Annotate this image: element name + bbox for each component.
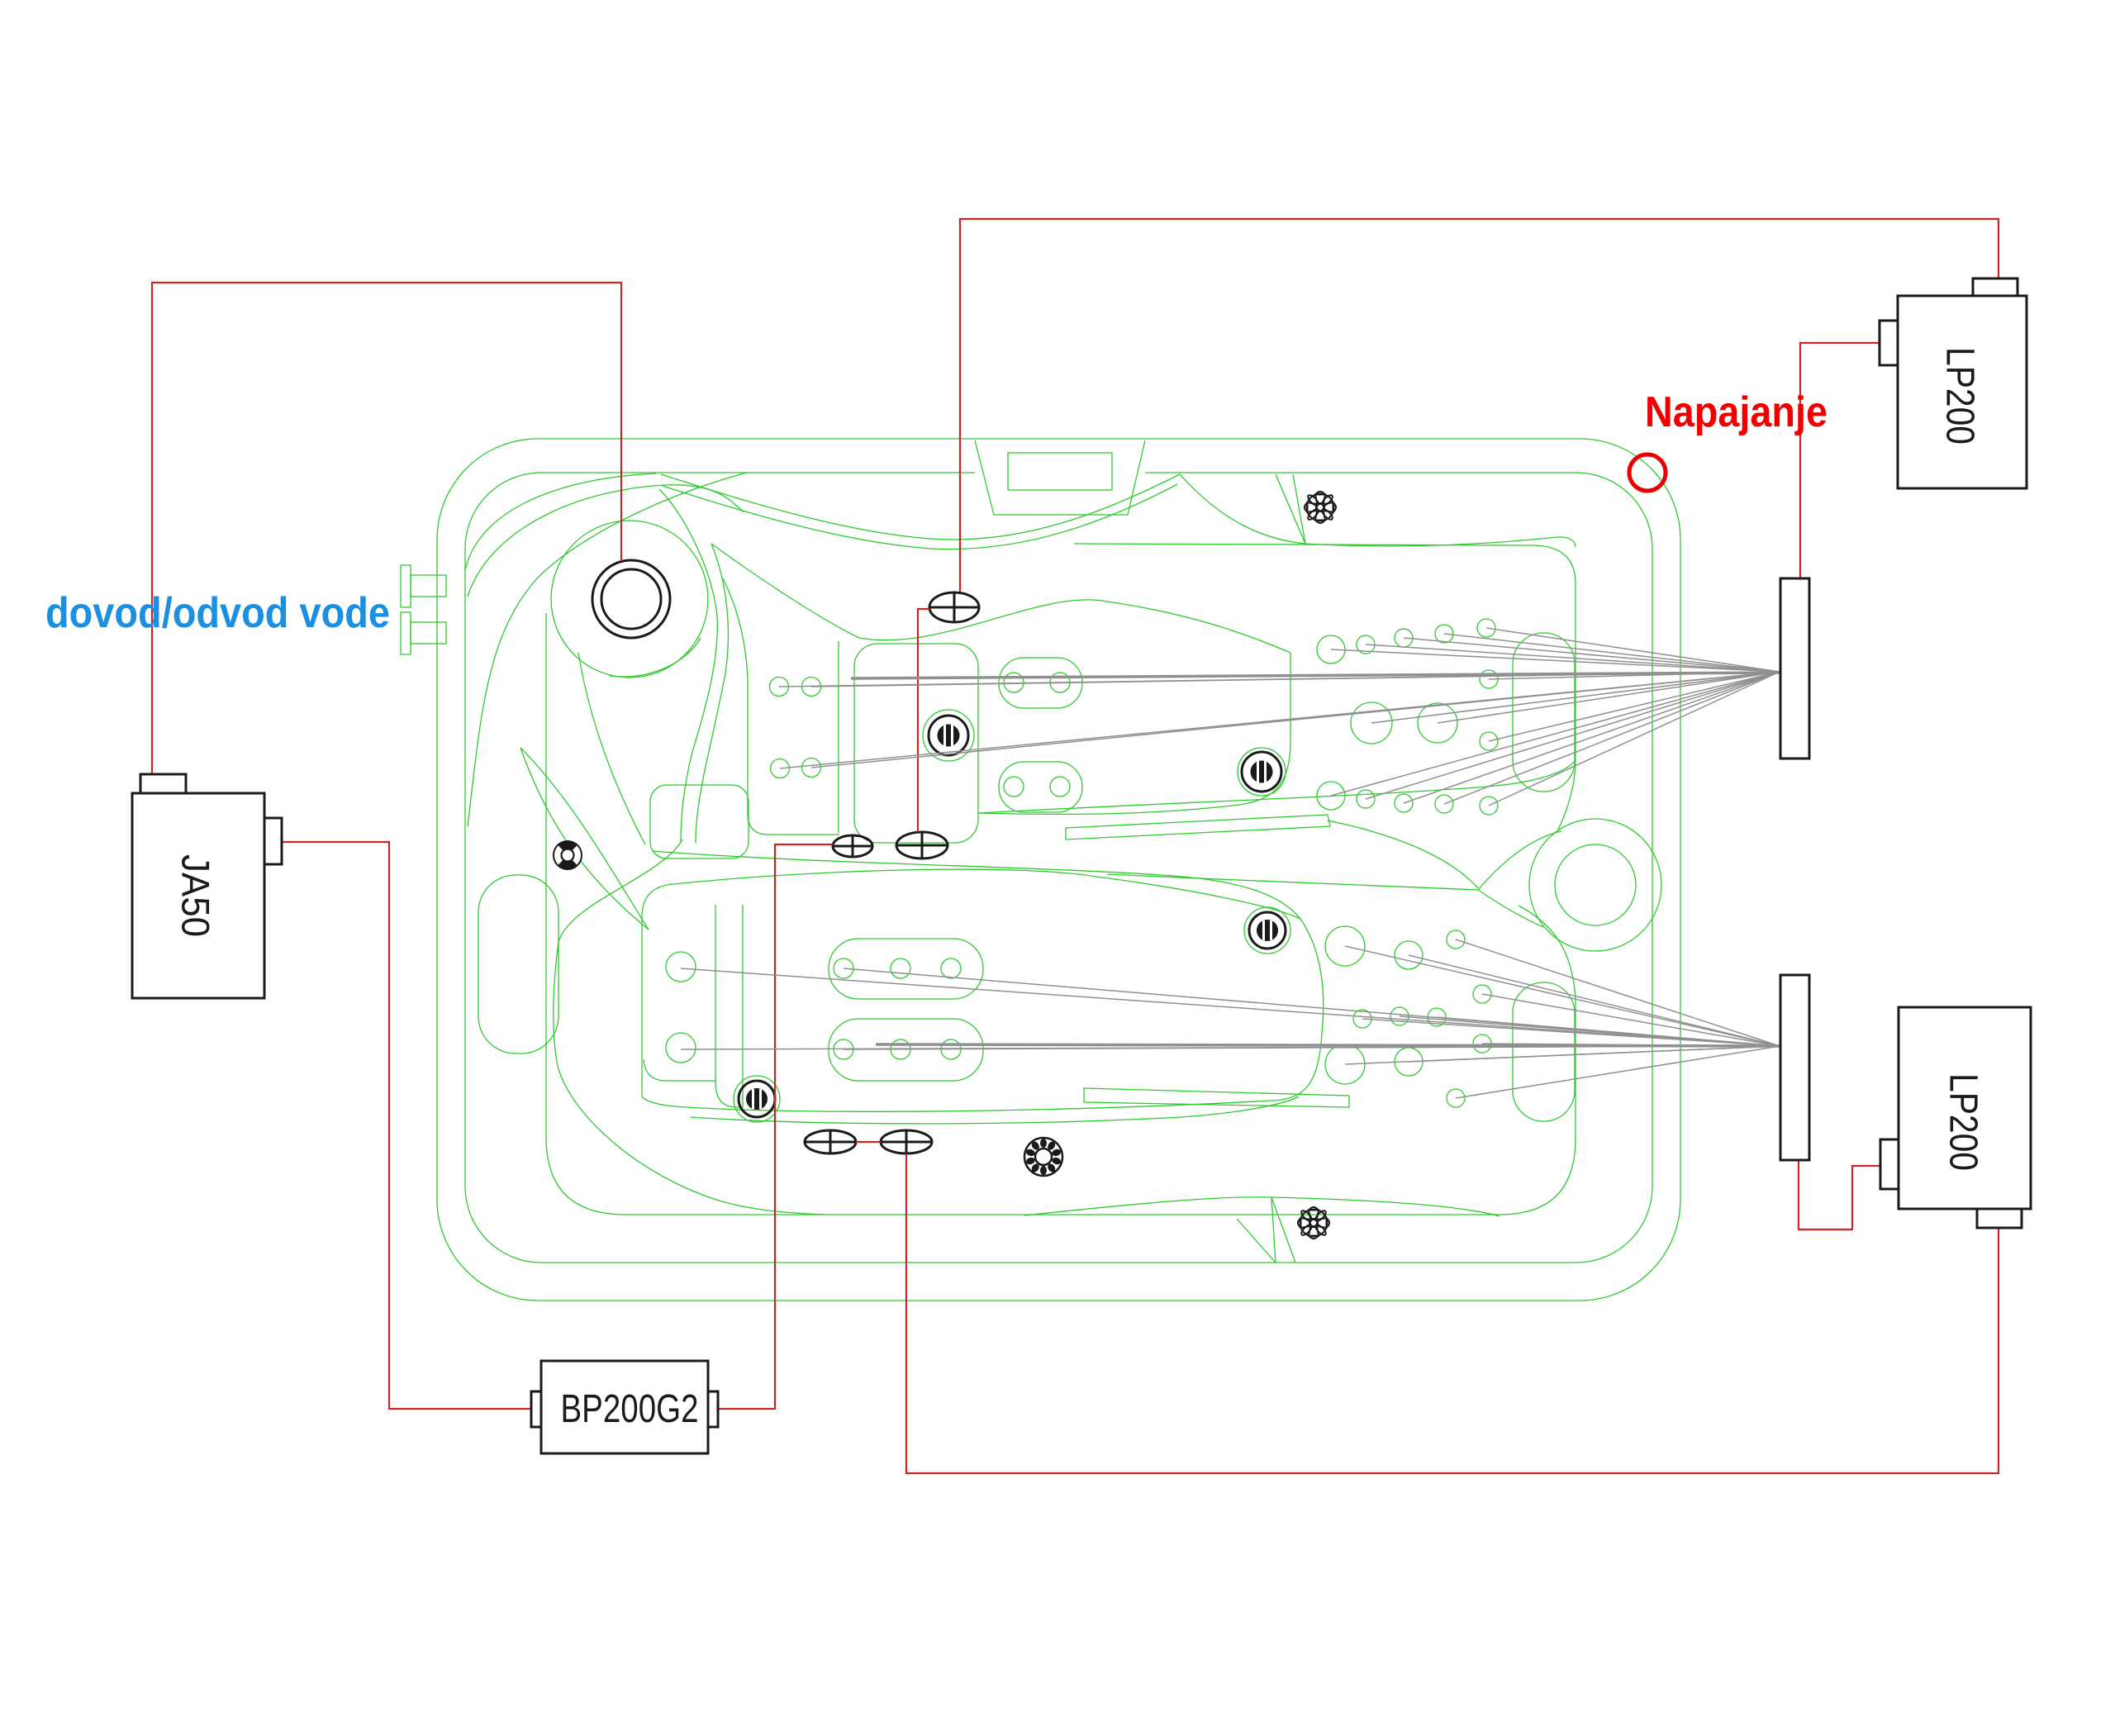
air control valve E4	[805, 1130, 856, 1153]
power symbol red circle	[1629, 454, 1666, 491]
air control valve E1	[929, 592, 979, 622]
lower lounger pill 2	[829, 1019, 983, 1081]
diverter flower top	[1305, 492, 1336, 523]
jet fitting 3 (hatched)	[739, 1081, 775, 1117]
tub outer rim	[437, 439, 1680, 1301]
floor drain (life ring)	[554, 841, 582, 869]
lower pill 2 jets	[834, 1039, 853, 1059]
right seat upper footrest pill	[1513, 633, 1575, 792]
drain leaf bottom edge feed	[1107, 874, 1478, 890]
jet fitting 4 (hatched)	[1249, 912, 1286, 949]
corner seat back arc B	[468, 485, 744, 597]
green rings around jet fittings	[923, 710, 974, 761]
lower lounger body	[642, 869, 1324, 1111]
svg-text:LP200: LP200	[1938, 347, 1982, 445]
left armrest pill	[478, 875, 558, 1053]
upper pill 1 jets	[1004, 673, 1024, 692]
wire JA50 top to tub light	[152, 283, 621, 774]
seat top wave band line 1	[661, 474, 1180, 540]
wire top bus to LP200 top	[960, 219, 1999, 592]
air fan bundle lower	[681, 939, 1780, 1098]
svg-text:JA50: JA50	[174, 854, 218, 937]
diverter flower bottom	[1298, 1207, 1329, 1239]
corner seat chute line 1	[659, 489, 717, 841]
corner seat outer leaf	[520, 748, 649, 930]
corner seat bowl	[551, 521, 708, 678]
right seat lower footrest pill	[1513, 982, 1575, 1121]
air fan bundle upper	[779, 628, 1780, 806]
air control valve E3	[896, 832, 948, 858]
tub inner rim (gap at control panel bay)	[465, 473, 1652, 1263]
pump LP200 top box	[1880, 278, 2027, 488]
wire JA50 right to BP200G2 left	[282, 842, 531, 1409]
wire LP200 top left nub to upper manifold	[1800, 343, 1880, 578]
air control valve E5	[881, 1130, 932, 1153]
wire lower manifold to LP200 bottom left nub	[1799, 1161, 1880, 1229]
right seat upper jet circles	[1317, 635, 1345, 663]
seat top wave band line 2	[663, 484, 1177, 549]
air control valve E2	[833, 835, 872, 857]
lower lounger jet panel bottom	[644, 1059, 715, 1081]
corner seat bowl tail	[578, 653, 645, 844]
lower lounger strip	[1084, 1088, 1349, 1107]
water fitting 2	[401, 612, 411, 654]
lower lounger headrest	[650, 785, 749, 858]
basin outline right/top	[1074, 544, 1576, 830]
svg-text:BP200G2: BP200G2	[561, 1387, 699, 1431]
corner seat chute line 2	[696, 544, 728, 843]
wing bottom-right	[1024, 1197, 1500, 1216]
air blower outlet	[1024, 1138, 1062, 1176]
jet fitting 2 (hatched)	[1242, 752, 1281, 792]
svg-text:dovod/odvod vode: dovod/odvod vode	[45, 589, 390, 637]
wire air control E1 to E3	[918, 609, 929, 832]
water fitting 1	[401, 565, 411, 607]
wing top-right folds	[1276, 474, 1305, 544]
lower pill 1 jets	[834, 958, 853, 978]
wire E5 down to LP200 bottom	[906, 1153, 1999, 1473]
wire BP200G2 right to air control E2	[718, 844, 833, 1409]
upper lounger right/bottom edge	[978, 653, 1290, 814]
svg-text:Napajanje: Napajanje	[1645, 388, 1827, 436]
footwell left boundary	[554, 839, 826, 1215]
lower lounger backrest band	[715, 905, 743, 1107]
basin outline left/bottom	[468, 473, 747, 826]
lower lounger pill 1	[829, 939, 983, 999]
upper lounger pill 1	[999, 658, 1082, 708]
underwater light	[592, 560, 670, 638]
upper lounger jet panel	[723, 578, 839, 835]
control panel bay	[975, 440, 1145, 515]
control BP200G2 box	[531, 1361, 718, 1453]
wing top-right lower edge	[1180, 474, 1576, 547]
upper lounger strip	[1066, 815, 1330, 839]
right seat lower jet circles	[1325, 926, 1365, 966]
pump JA50 box	[132, 774, 282, 998]
corner seat bowl cusp	[610, 638, 701, 677]
upper lounger backrest band	[854, 644, 978, 843]
lower air manifold	[1780, 975, 1809, 1160]
jet fitting 1 (hatched)	[929, 716, 968, 755]
upper lounger bottom edge continuation	[978, 760, 1576, 813]
upper air manifold	[1780, 578, 1809, 759]
upper pill 2 jets	[1004, 777, 1024, 797]
upper lounger pill 2	[999, 762, 1082, 812]
upper lounger shoulder jets	[770, 678, 789, 697]
lower lounger shoulder jets	[666, 952, 696, 982]
wire between E4 and E5	[856, 1141, 881, 1143]
corner seat back arc A	[465, 473, 656, 570]
drain leaf top edge feed	[1328, 820, 1478, 888]
pump LP200 bottom box	[1880, 1007, 2031, 1228]
corner drain teardrop	[1529, 819, 1661, 951]
central floor divider	[653, 851, 1300, 919]
svg-text:LP200: LP200	[1942, 1073, 1985, 1171]
upper lounger top edge	[711, 544, 1290, 653]
lower lounger bottom edge second line	[691, 1096, 1299, 1124]
control panel display	[1008, 453, 1112, 490]
